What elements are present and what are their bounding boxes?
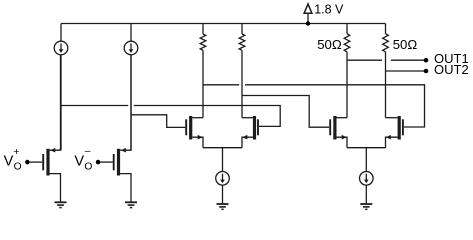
svg-text:V: V bbox=[4, 154, 14, 170]
wire rail to I1 bbox=[60, 24, 62, 42]
resistor 50ohm right bbox=[383, 24, 389, 118]
wire tail 2 to I4 bbox=[365, 148, 367, 172]
svg-text:OUT2: OUT2 bbox=[434, 62, 469, 77]
svg-text:50Ω: 50Ω bbox=[393, 37, 418, 52]
wire node A to gate of M4 (long, hop over node-B line) bbox=[61, 105, 128, 107]
transistor M6 (diff pair 2 right) bbox=[386, 116, 403, 148]
wire I3 to ground bbox=[222, 185, 224, 203]
ground G1 bbox=[55, 202, 67, 207]
current source I3 bbox=[216, 172, 230, 186]
transistor M5 (diff pair 2 left) bbox=[330, 116, 347, 148]
svg-text:50Ω: 50Ω bbox=[317, 37, 342, 52]
wire node RB to gate of M5 bbox=[242, 96, 329, 128]
svg-text:O: O bbox=[84, 161, 92, 172]
wire rail to I2 bbox=[130, 24, 132, 42]
wire tail diff pair 2 bbox=[347, 147, 386, 149]
svg-text:1.8 V: 1.8 V bbox=[314, 3, 344, 17]
current source I2 bbox=[124, 41, 138, 55]
power supply 1.8V symbol bbox=[304, 4, 312, 24]
svg-text:+: + bbox=[13, 147, 19, 158]
ground G3 bbox=[217, 204, 229, 209]
transistor M3 (diff pair 1 left) bbox=[186, 116, 203, 148]
resistor 50ohm left bbox=[344, 24, 350, 118]
terminal dot VO+ bbox=[25, 160, 30, 165]
resistor RB bbox=[239, 24, 245, 118]
resistor RA bbox=[200, 24, 206, 118]
transistor M2 (input follower VO-) bbox=[100, 55, 131, 202]
ground G2 bbox=[125, 202, 137, 207]
svg-text:–: – bbox=[85, 146, 91, 157]
transistor M4 (diff pair 1 right) bbox=[242, 116, 258, 148]
terminal dot VO- bbox=[96, 160, 101, 165]
transistor M1 (input follower VO+) bbox=[30, 55, 61, 202]
label VO- bbox=[74, 146, 92, 173]
wire node B to gate of M3 bbox=[131, 115, 185, 128]
wire top supply rail bbox=[61, 23, 386, 25]
wire node RA to gate of M6 (long, hop over RB line) bbox=[203, 84, 239, 86]
ground G4 bbox=[360, 204, 372, 209]
current source I4 bbox=[360, 172, 374, 186]
wire OUT2 (from 50ohm-right node) bbox=[386, 70, 427, 72]
label VO+ bbox=[4, 147, 22, 172]
wire OUT1 (from 50ohm-left node, hop over right resistor line) bbox=[347, 59, 382, 61]
svg-text:V: V bbox=[74, 154, 84, 170]
current source I1 bbox=[54, 41, 68, 55]
wire node B vertical bbox=[130, 55, 132, 150]
wire node A vertical bbox=[60, 55, 62, 150]
terminal dot OUT2 bbox=[424, 69, 429, 74]
wire I4 to ground bbox=[365, 185, 367, 203]
wire tail diff pair 1 bbox=[203, 147, 242, 149]
terminal dot OUT1 bbox=[424, 58, 429, 63]
junction dot supply-rail bbox=[306, 21, 310, 25]
wire tail 1 to I3 bbox=[222, 148, 224, 172]
svg-text:O: O bbox=[14, 161, 22, 172]
